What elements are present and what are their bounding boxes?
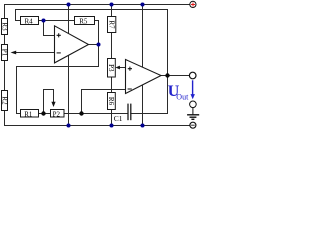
svg-text:P2: P2 (53, 110, 61, 118)
wire C1 right plate to opamp2 output node (131, 76, 168, 114)
wire R4 right to node A (39, 20, 44, 22)
svg-text:R2: R2 (0, 96, 8, 105)
wire node B riser to opamp2 inverting input (82, 90, 126, 114)
wire R7 bottom to P3 top (111, 33, 113, 59)
potentiometer P1 (0, 45, 16, 61)
wire P2 wiper loop to R1/P2 node (44, 90, 54, 114)
resistor R4 (21, 17, 39, 26)
wire P1 bottom to R2 top (4, 61, 6, 91)
opamp2 supply line (142, 5, 144, 126)
wire R3 bottom to P1 top (4, 35, 6, 45)
resistor R3 (0, 19, 8, 35)
svg-text:P3: P3 (107, 64, 115, 72)
wire P3 wiper to opamp2 non-inverting input (120, 67, 126, 69)
resistor R5 (75, 17, 95, 26)
svg-text:R4: R4 (25, 17, 34, 25)
wire P1 wiper to opamp1 inverting input (16, 52, 55, 54)
wire feedback from Uout node to R4 left (16, 10, 168, 76)
wire R6 top stub (111, 90, 113, 93)
resistor R1 (21, 110, 39, 119)
terminal + supply (190, 1, 196, 7)
wire top rail to R7 top (111, 5, 113, 17)
svg-text:R3: R3 (0, 22, 8, 31)
wire R2 bottom to bottom rail (5, 111, 190, 126)
node dot top rail R7 (110, 3, 114, 7)
node dot R1/P2 junction (41, 111, 45, 115)
svg-text:C1: C1 (114, 114, 123, 123)
wire R5 right down to opamp1 output node (95, 21, 99, 67)
wire P3 bottom to inverting wire (111, 77, 113, 90)
resistor R6 (107, 93, 115, 110)
op-amp U1 (55, 26, 89, 63)
node dot opamp1 output (97, 43, 101, 47)
svg-text:P1: P1 (0, 49, 8, 57)
terminal - supply (190, 122, 196, 128)
wire opamp1 output loop down to R1 left (17, 67, 99, 114)
node B dot riser junction (79, 111, 83, 115)
node dot top rail supply1 (67, 3, 71, 7)
svg-text:R1: R1 (24, 110, 33, 118)
terminal Uout bottom (190, 101, 197, 108)
potentiometer P2 (51, 102, 65, 119)
svg-text:Out: Out (176, 92, 189, 101)
wire top rail (5, 5, 191, 19)
arrow Uout annotation (191, 80, 195, 99)
node dot top rail supply2 (141, 3, 145, 7)
node dot bottom rail supply1 (67, 124, 71, 128)
resistor R7 (107, 17, 115, 33)
svg-text:R7: R7 (107, 20, 115, 29)
opamp1 supply line (68, 5, 70, 126)
node A dot R4/R5 junction (42, 19, 46, 23)
wire R1 right to P2 left (39, 113, 51, 115)
wire opamp1 output to node (89, 44, 99, 46)
wire node A to R5 left (44, 20, 75, 22)
wire opamp2 output to terminal (161, 75, 189, 77)
wire P2 right to C1 left plate (64, 113, 128, 115)
wire node A down to opamp1 non-inverting input (44, 21, 55, 36)
ground (187, 108, 199, 120)
node dot opamp2 output (165, 73, 169, 77)
potentiometer P3 (107, 59, 120, 78)
capacitor C1 (114, 104, 131, 123)
node dot bottom rail R6 (110, 124, 114, 128)
svg-text:R5: R5 (79, 17, 88, 25)
label U out (168, 83, 189, 101)
svg-text:R6: R6 (107, 97, 115, 106)
resistor R2 (0, 91, 8, 111)
terminal Uout top (189, 72, 196, 79)
node dot bottom rail supply2 (141, 124, 145, 128)
op-amp U2 (126, 60, 162, 94)
wire R6 bottom to bottom rail (111, 110, 113, 126)
